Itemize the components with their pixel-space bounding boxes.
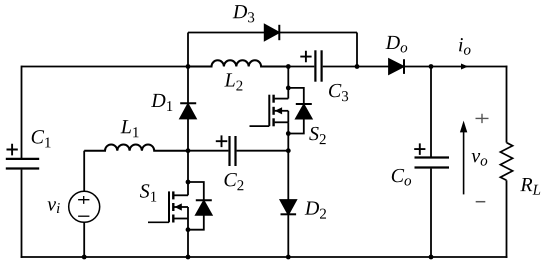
- S1 bottom stub: [174, 218, 188, 220]
- capacitor C2: [230, 136, 236, 166]
- label L2: [224, 73, 242, 90]
- transistor S2: [250, 67, 312, 151]
- junction dot node at L2 / S2 drain: [286, 64, 291, 69]
- label D1: [151, 94, 172, 111]
- wire vi top lead: [83, 151, 85, 192]
- diode Do: [389, 59, 404, 74]
- wire left rail lower segment: [21, 170, 23, 258]
- capacitor C1: [6, 159, 39, 169]
- wire vi bottom lead: [83, 222, 85, 257]
- junction dot node C2 / S2 source / D2: [286, 148, 291, 153]
- label vo: [472, 153, 488, 166]
- S2 gate bar: [268, 95, 270, 126]
- wire Co branch upper: [430, 67, 432, 157]
- label vi minus sign: [78, 215, 89, 217]
- label D2: [305, 202, 326, 219]
- label C3: [329, 84, 348, 101]
- resistor RL: [500, 143, 512, 181]
- S2 top stub: [275, 98, 289, 100]
- S1 arrow: [175, 203, 182, 210]
- wire C2 node left: [188, 150, 228, 152]
- wire S1 source lead: [187, 219, 189, 258]
- wire S2 source lead: [287, 122, 289, 150]
- label C2 plus sign: [216, 135, 228, 147]
- wire D3 branch right vertical: [356, 33, 358, 67]
- label vo plus sign: [476, 114, 489, 123]
- wire C2 right to node: [237, 150, 289, 152]
- wire top-left horizontal rail y=66.5: [22, 66, 189, 68]
- label C3 plus sign: [300, 51, 311, 63]
- S1 gate bar: [168, 191, 170, 222]
- junction dot vi bottom: [82, 255, 87, 260]
- io current arrow: [461, 64, 468, 70]
- S1 stub connector: [187, 207, 189, 219]
- label D3: [233, 5, 255, 22]
- capacitor C3: [315, 50, 321, 81]
- voltage source vi: [69, 191, 100, 222]
- inductor L2: [188, 60, 288, 66]
- wire D2 cathode to bottom rail: [287, 214, 289, 257]
- wire Do cathode to right rail: [404, 66, 507, 68]
- S1 body diode branch: [188, 182, 204, 230]
- label C1: [32, 130, 51, 147]
- label vi: [47, 201, 59, 213]
- junction dot S2 source node: [286, 131, 291, 136]
- wire node to C3 left plate: [288, 66, 314, 68]
- transistor S1: [148, 151, 212, 260]
- wire right rail upper: [506, 66, 508, 143]
- junction dot node at Co tap: [429, 64, 434, 69]
- junction dot node at C3 / D3 cathode: [355, 64, 360, 69]
- junction dot S1 source node: [186, 227, 191, 232]
- S1 gate lead: [148, 221, 169, 223]
- vo arrow: [463, 132, 465, 195]
- label C2: [225, 173, 244, 190]
- S1 channel bar segments: [172, 191, 174, 222]
- junction dot node at L1 / D1 / C2: [186, 148, 191, 153]
- S1 middle stub: [174, 206, 188, 208]
- junction dot S1 at bottom rail: [186, 255, 191, 260]
- S2 stub connector: [287, 111, 289, 123]
- wire Co branch lower: [430, 169, 432, 257]
- label vi plus sign: [78, 196, 89, 204]
- label Co plus sign: [414, 143, 425, 155]
- S2 middle stub: [275, 110, 289, 112]
- label RL: [520, 178, 540, 195]
- wire D1 anode to node: [187, 119, 189, 152]
- junction dot D2 at bottom rail: [286, 255, 291, 260]
- label Co: [392, 169, 411, 186]
- wire bottom rail: [21, 256, 508, 258]
- wire C3 right plate to node: [323, 66, 357, 68]
- label vo minus sign: [476, 201, 486, 203]
- label io: [459, 38, 471, 55]
- wire node to D2: [287, 151, 289, 200]
- S2 body diode branch: [288, 88, 304, 134]
- S2 body diode: [296, 105, 312, 119]
- S1 body diode: [196, 201, 212, 215]
- wire D3 branch top: [188, 32, 357, 34]
- junction dot node at top rail / L2: [186, 64, 191, 69]
- junction dot Co bottom: [429, 255, 434, 260]
- wire S1 drain lead: [187, 151, 189, 196]
- S2 arrow: [275, 107, 282, 114]
- S2 bottom stub: [275, 121, 289, 123]
- diode D1: [180, 103, 196, 118]
- diode D2: [281, 200, 297, 214]
- diode D3: [265, 25, 280, 40]
- wire S2 drain lead: [287, 67, 289, 99]
- wire vertical x=188 from top branch through D1: [187, 33, 189, 104]
- wire node to diode Do: [357, 66, 389, 68]
- label S2: [309, 127, 325, 144]
- junction dot S2 drain node: [286, 86, 291, 91]
- S2 gate lead: [250, 125, 270, 127]
- label S1: [140, 184, 156, 201]
- label C1 plus sign: [7, 144, 18, 156]
- junction dot S1 drain node: [186, 180, 191, 185]
- S1 top stub: [174, 194, 188, 196]
- wire left rail upper segment: [21, 66, 23, 158]
- wire right rail lower: [506, 180, 508, 258]
- label Do: [385, 36, 407, 53]
- capacitor Co: [415, 158, 450, 168]
- inductor L1: [84, 145, 188, 151]
- S2 channel bar segments: [272, 95, 274, 127]
- label L1: [121, 120, 139, 137]
